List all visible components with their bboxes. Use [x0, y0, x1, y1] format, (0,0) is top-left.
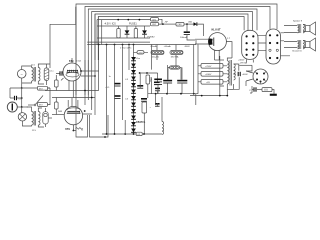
svg-text:-300V: -300V: [184, 46, 190, 48]
wire: [94, 14, 96, 60]
capacitor C21: [254, 87, 256, 91]
tube socket X1: [253, 69, 268, 84]
SP1 coil A: [298, 25, 299, 33]
connector J1 pin 4: [252, 42, 254, 44]
junction: [166, 93, 168, 95]
wire: [158, 83, 182, 94]
svg-text:KLU 8T: KLU 8T: [212, 28, 221, 32]
tube V3 KLU8T envelope: [208, 33, 226, 51]
svg-text:500-220: 500-220: [152, 57, 160, 59]
net ground bus wire: [102, 133, 162, 135]
tube V2 left lead: [52, 114, 64, 116]
SP1 coil B: [303, 25, 304, 33]
wire: [45, 108, 47, 127]
rail wire T3 bottom: [190, 89, 227, 95]
junction: [122, 44, 124, 46]
wire: [106, 45, 108, 135]
svg-text:FUSE1: FUSE1: [129, 23, 137, 26]
wire: [21, 78, 23, 88]
tube V2 anode arc: [67, 108, 81, 110]
resistor R8: [55, 102, 59, 109]
wire: [168, 67, 181, 79]
diode DZ7: [131, 96, 136, 100]
transformer T3 core: [229, 60, 231, 86]
wire: [97, 17, 99, 61]
resistor R22 (+6V box): [201, 80, 223, 85]
junction: [226, 95, 228, 97]
wire: [163, 23, 176, 25]
diode DZ2: [131, 64, 136, 68]
wire: [46, 64, 48, 85]
junction: [133, 44, 135, 46]
rail wire A3: [97, 37, 150, 39]
wire: [245, 81, 247, 86]
wire: [303, 25, 306, 32]
T1 secondary: [38, 68, 40, 82]
leftmost bundle vertical lower: [75, 7, 77, 120]
SP2 wires: [284, 42, 298, 48]
junction: [117, 19, 119, 21]
diode DZ4: [131, 77, 136, 81]
wire: [184, 23, 194, 25]
connector J1 pin 6: [252, 49, 254, 51]
tube V1 grid band: [66, 70, 78, 73]
meter M1: [17, 70, 26, 79]
junction: [162, 23, 164, 25]
tube V2 bottom/right leads: [73, 114, 92, 131]
tube socket X1 pin: [260, 81, 262, 83]
junction: [98, 44, 100, 46]
wire: [197, 24, 203, 36]
diode DZ11: [131, 122, 136, 126]
wire: [197, 45, 199, 94]
speaker SP1: [306, 26, 311, 32]
wire: [38, 81, 44, 84]
inductor L4 coil: [162, 122, 164, 135]
junction: [128, 44, 130, 46]
connector J2 body: [266, 29, 281, 64]
capacitor C22: [155, 103, 160, 106]
wire: [230, 77, 239, 89]
grid wires: [195, 39, 209, 44]
wire: [159, 19, 164, 24]
junction: [106, 133, 108, 135]
svg-text:+630V: +630V: [205, 74, 212, 76]
svg-text:-50mA: -50mA: [150, 45, 157, 48]
tube V2 top leads: [68, 98, 78, 107]
junction: [193, 93, 195, 95]
capacitor C13: [137, 85, 143, 88]
wire: [128, 45, 130, 71]
SP1 wires: [284, 26, 298, 33]
junction: [186, 23, 188, 25]
svg-text:6T9: 6T9: [69, 59, 74, 63]
diode DZ3: [131, 70, 136, 74]
SP2 coil A: [298, 41, 299, 49]
junction: [146, 72, 148, 74]
wire: [96, 20, 98, 45]
svg-text:0k: 0k: [81, 129, 83, 131]
diode DZ8: [131, 103, 136, 107]
junction: [143, 133, 145, 135]
junction: [114, 44, 116, 46]
junction: [46, 87, 48, 89]
junction: [84, 90, 86, 92]
resistor R4: [38, 86, 48, 90]
wire: [140, 73, 148, 134]
wire: [135, 26, 137, 38]
wire: [22, 66, 30, 70]
diode DZ6: [131, 90, 136, 94]
wire: [48, 117, 52, 119]
socket lead wires: [246, 71, 253, 81]
net mains-derived wire: [50, 7, 76, 68]
resistor R12 (+150 oval): [137, 51, 144, 54]
svg-text:100mA: 100mA: [180, 36, 187, 39]
net screen bus wire: [85, 7, 270, 96]
svg-text:0.5m: 0.5m: [136, 58, 141, 60]
tube V3 plate: [208, 38, 212, 45]
junction: [104, 136, 106, 138]
feedback loop wire 2: [90, 115, 109, 137]
fuse F1: [44, 68, 49, 81]
wire: [114, 45, 116, 135]
junction: [133, 133, 135, 135]
junction: [21, 87, 23, 89]
tube V2 grid band: [67, 111, 81, 114]
junction: [180, 93, 182, 95]
wire: [156, 94, 196, 105]
resistor R11 (cell2): [134, 29, 137, 38]
connector J1 pin 5: [246, 49, 248, 51]
junction: [84, 110, 86, 112]
svg-text:FUSE2: FUSE2: [148, 37, 156, 39]
svg-text:2 Pair 14Px: 2 Pair 14Px: [120, 47, 132, 50]
svg-text:180 TRA: 180 TRA: [171, 56, 180, 59]
svg-text:0.1u: 0.1u: [50, 70, 54, 72]
svg-text:+700V: +700V: [205, 66, 212, 68]
rail wire mid: [140, 72, 158, 74]
wire: [193, 45, 195, 94]
diode D10: [125, 30, 130, 34]
wire: [73, 130, 76, 132]
rail wire B upper: [87, 41, 150, 43]
fuse F2: [43, 112, 48, 124]
junction: [124, 133, 126, 135]
tube V3 grid: [213, 38, 215, 46]
junction: [21, 97, 23, 99]
wire: [156, 73, 158, 107]
inductor L1 body: [151, 50, 164, 54]
transformer T1 core: [33, 67, 35, 82]
capacitor C1: [15, 96, 17, 100]
transformer T3 primary: [227, 61, 229, 84]
resistor R20 (+700V box): [201, 64, 223, 69]
connector J2 open pins: [269, 49, 271, 51]
wire: [98, 45, 100, 91]
rail wire D: [45, 90, 99, 92]
net bias bus wire: [88, 9, 257, 95]
ground bar: [270, 94, 277, 96]
junction: [155, 93, 157, 95]
diode DZ1: [131, 57, 136, 61]
capacitor C3: [60, 71, 62, 75]
connector J2 pin 2: [276, 34, 278, 36]
anode wire: [226, 42, 232, 58]
wire: [10, 97, 22, 99]
switch S1: [35, 96, 43, 106]
junction: [139, 19, 141, 21]
wire: [157, 45, 176, 51]
wire: [250, 86, 254, 93]
transformer T2 core: [33, 111, 35, 126]
T2 primary: [32, 112, 34, 126]
rail wire A1: [97, 19, 152, 21]
net heater bus wire 1: [92, 12, 253, 61]
connector J1 bottom stubs: [247, 59, 254, 62]
wire: [151, 45, 153, 94]
wire: [246, 65, 252, 71]
wire: [27, 107, 32, 126]
tube socket X1 pin: [256, 79, 258, 81]
rail wire A2: [97, 25, 150, 27]
wire: [227, 58, 232, 61]
wire: [21, 88, 23, 107]
wire: [17, 106, 28, 108]
connector J1 pin 2: [252, 35, 254, 37]
wire: [168, 65, 182, 80]
capacitor C14: [141, 98, 147, 101]
diode DZ10: [131, 116, 136, 120]
wire: [55, 75, 57, 115]
wire: [49, 88, 51, 105]
capacitor C11: [115, 83, 121, 86]
inductor L2 body: [170, 50, 183, 54]
svg-text:+6V: +6V: [206, 82, 210, 84]
junction: [80, 70, 82, 72]
capacitor C15: [163, 80, 172, 83]
rail wire C: [148, 93, 198, 95]
wire: [22, 121, 28, 126]
speaker SP2: [306, 42, 311, 48]
connector J2 right wires: [281, 33, 291, 56]
wire: [239, 64, 252, 66]
svg-text:-09V 6A: -09V 6A: [240, 61, 248, 64]
svg-text:W8N: W8N: [58, 111, 63, 113]
wires from rails: [198, 66, 201, 82]
wire: [134, 51, 149, 53]
tube V1 cathode ellipse: [66, 72, 79, 77]
resistor R10 (cell1): [117, 29, 120, 38]
wires to T3 taps: [223, 66, 227, 82]
resistor R1: [151, 18, 159, 21]
connector J2 pin 6: [276, 57, 278, 59]
junction: [139, 72, 141, 74]
connector J1 body: [242, 30, 258, 59]
diode DZ5: [131, 83, 136, 87]
wire: [257, 89, 262, 91]
lamp LP1: [18, 113, 26, 121]
junction: [106, 44, 108, 46]
junction: [94, 75, 96, 77]
rail wire B lower: [87, 44, 196, 46]
wire: [101, 20, 103, 45]
tube socket X1 pin: [256, 73, 258, 75]
net heater bus wire 2: [95, 14, 248, 60]
junction: [91, 97, 93, 99]
tube socket X1 pin: [263, 73, 265, 75]
plug P1: [7, 102, 17, 112]
capacitor C12: [115, 95, 121, 98]
capacitor C17: [154, 79, 162, 85]
capacitor C19: [155, 88, 160, 91]
svg-text:+400V: +400V: [242, 74, 249, 76]
wire: [48, 88, 51, 105]
resistor R6: [55, 80, 59, 87]
wire: [38, 125, 44, 127]
junction: [73, 130, 75, 132]
wire: [157, 55, 176, 66]
svg-text:+300V: +300V: [238, 59, 245, 61]
tube socket X1 pin: [263, 79, 265, 81]
wire: [38, 108, 42, 112]
svg-text:6T9: 6T9: [65, 127, 70, 131]
tube V1 right leads: [81, 71, 99, 76]
wire: [195, 40, 197, 45]
tube V2 6T9 envelope: [64, 106, 82, 124]
junction: [114, 133, 116, 135]
connector J2 pin 3: [269, 42, 271, 44]
connector link wires: [258, 35, 266, 50]
connector J2 pin 5: [269, 57, 271, 59]
wire: [215, 59, 225, 61]
T1 primary: [32, 68, 34, 82]
resistor R25: [262, 88, 272, 92]
connector J1 pin 3: [246, 42, 248, 44]
resistor R2: [151, 22, 159, 25]
resistor R21 (+630V box): [201, 72, 223, 77]
junction: [127, 19, 129, 21]
resistor R3: [176, 22, 184, 26]
connector J1 pin 8: [252, 54, 254, 56]
capacitor C16: [177, 80, 187, 83]
wire: [272, 90, 274, 94]
connector J1 pin 7: [246, 54, 248, 56]
junction: [21, 106, 23, 108]
capacitor C2: [184, 31, 190, 34]
transformer T3 secondary: [234, 64, 236, 80]
diode DZ12: [131, 129, 136, 133]
wire: [187, 24, 195, 40]
resistor R15: [136, 132, 142, 135]
svg-text:+50mA: +50mA: [164, 45, 172, 48]
svg-text:-4.5V / ICS: -4.5V / ICS: [104, 23, 116, 26]
tube V1 top/bottom leads: [69, 58, 73, 98]
resistor R13: [146, 75, 150, 84]
wire: [303, 41, 306, 48]
resistor R5: [38, 103, 48, 107]
resistor R14: [142, 102, 147, 113]
wire: [220, 56, 224, 96]
wire: [122, 45, 124, 121]
svg-text:10 mA: 10 mA: [76, 59, 82, 62]
wire: [126, 26, 128, 38]
inductor L3 body: [170, 66, 180, 69]
wire: [21, 107, 23, 113]
wire: [161, 97, 163, 134]
svg-text:1u: 1u: [109, 76, 111, 78]
feedback loop wire 1: [76, 115, 88, 137]
junction: [201, 95, 203, 97]
wire: [234, 64, 239, 71]
junction: [219, 95, 221, 97]
resistor R7: [76, 128, 83, 130]
capacitor C20: [238, 72, 240, 76]
connector J1 pin 1: [246, 35, 248, 37]
wire: [38, 64, 50, 68]
T2 secondary: [38, 112, 40, 126]
connector J2 pin 1: [269, 34, 271, 36]
wire: [227, 84, 233, 89]
wire: [118, 26, 120, 38]
wire: [22, 66, 32, 83]
diode D11: [142, 30, 147, 34]
connector J2 pin 4: [276, 42, 278, 44]
svg-text:Ground On: Ground On: [292, 51, 302, 53]
net heater bus wire 3: [98, 17, 244, 61]
diode DZ9: [131, 109, 136, 113]
capacitor C18: [154, 82, 160, 85]
tube V1 6T9 envelope: [63, 63, 81, 81]
bundle verticals lower: [85, 60, 95, 115]
diode D1: [194, 22, 197, 26]
svg-text:Speaker 8: Speaker 8: [293, 21, 303, 23]
wire: [144, 26, 146, 38]
wire: [124, 120, 126, 134]
rail wire E: [52, 97, 95, 99]
svg-text:1N40: 1N40: [188, 21, 192, 23]
net B+ bus wire: [76, 4, 277, 95]
cathode wires: [215, 50, 220, 60]
wire: [9, 88, 11, 98]
SP2 coil B: [303, 41, 304, 49]
tube V1 left leads: [56, 74, 64, 81]
net zener string wire: [133, 45, 135, 135]
wire: [28, 104, 34, 106]
wire y88: [10, 87, 50, 89]
